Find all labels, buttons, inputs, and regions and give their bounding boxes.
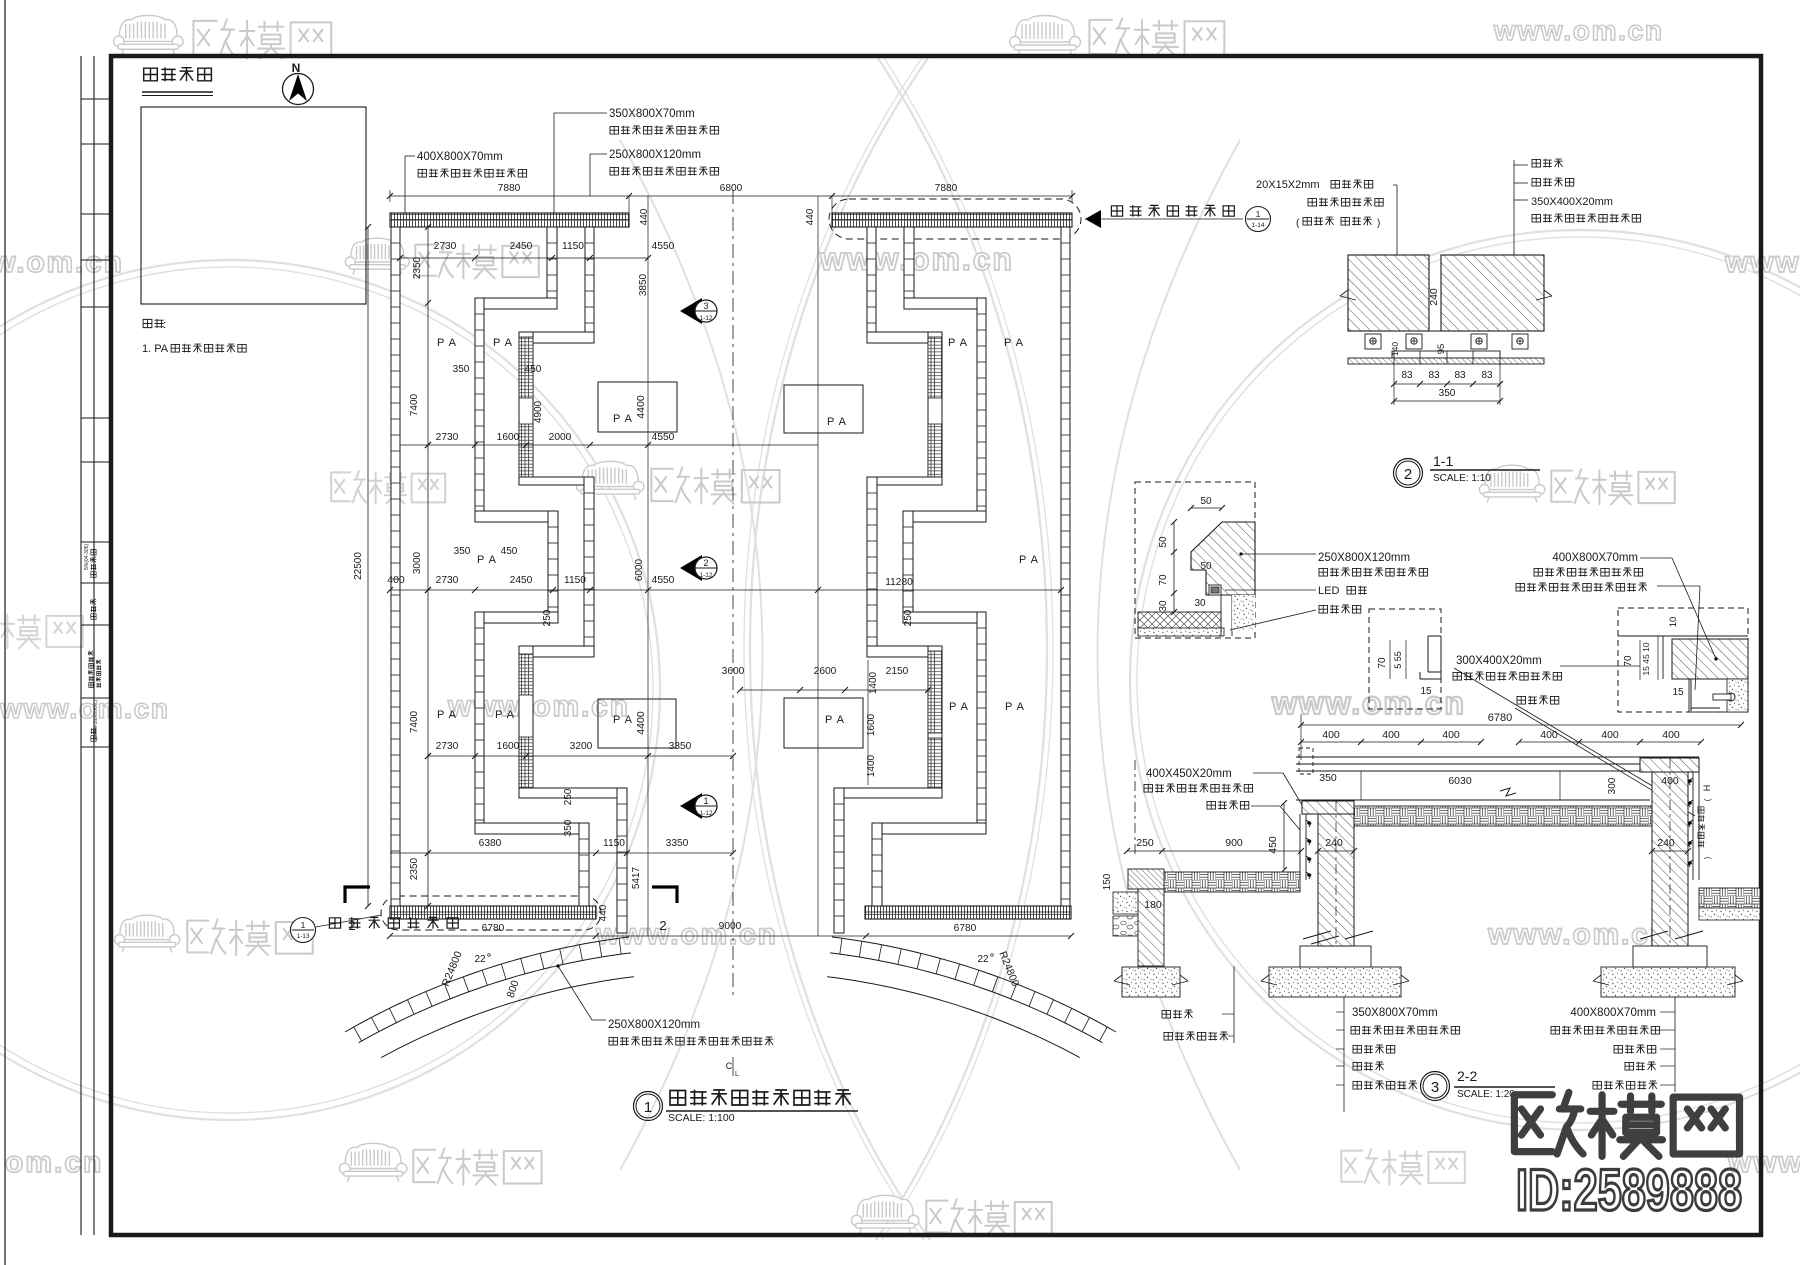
svg-text:P A: P A <box>437 709 457 721</box>
svg-text:4550: 4550 <box>652 575 675 586</box>
svg-text:2600: 2600 <box>814 666 837 677</box>
svg-text:6800: 6800 <box>720 183 743 194</box>
svg-text:www.om.cn: www.om.cn <box>1493 15 1664 46</box>
svg-text:350: 350 <box>454 546 471 557</box>
svg-text:6780: 6780 <box>482 923 505 934</box>
svg-text:250: 250 <box>1136 837 1154 849</box>
svg-text:300X400X20mm: 300X400X20mm <box>1456 655 1542 667</box>
svg-text:3: 3 <box>703 301 708 311</box>
svg-text:400: 400 <box>1601 729 1619 741</box>
svg-text:400X800X70mm: 400X800X70mm <box>1552 552 1638 564</box>
svg-text:P A: P A <box>948 337 968 349</box>
svg-text:1150: 1150 <box>562 241 584 252</box>
svg-text:440: 440 <box>639 208 650 225</box>
svg-text:9000: 9000 <box>719 921 742 932</box>
svg-text:1-12: 1-12 <box>699 572 712 579</box>
svg-text:240: 240 <box>1657 837 1675 849</box>
svg-text:22: 22 <box>474 954 486 965</box>
svg-text:400X800X70mm: 400X800X70mm <box>1570 1007 1656 1019</box>
svg-text:11280: 11280 <box>885 577 913 588</box>
svg-text:400X450X20mm: 400X450X20mm <box>1146 768 1232 780</box>
svg-text:P A: P A <box>1019 554 1039 566</box>
svg-text:140: 140 <box>1390 342 1400 356</box>
svg-text:LED: LED <box>1318 585 1339 597</box>
svg-text:150: 150 <box>1102 873 1113 890</box>
svg-text:30: 30 <box>1194 598 1206 609</box>
svg-text:350: 350 <box>1319 772 1337 784</box>
svg-text:www.om.cn: www.om.cn <box>1271 685 1466 721</box>
svg-text:2150: 2150 <box>886 666 909 677</box>
svg-text:H: H <box>1702 785 1712 792</box>
svg-text:7880: 7880 <box>498 183 521 194</box>
svg-text:400: 400 <box>1442 729 1460 741</box>
svg-text:2450: 2450 <box>510 575 533 586</box>
svg-text:2: 2 <box>1404 466 1412 483</box>
svg-text:30: 30 <box>1158 600 1169 612</box>
svg-text:om.cn: om.cn <box>5 1146 103 1179</box>
svg-text:6000: 6000 <box>634 558 645 581</box>
svg-text:www.om.cn: www.om.cn <box>819 241 1014 277</box>
svg-text:5417: 5417 <box>631 866 642 889</box>
svg-text:1. PA: 1. PA <box>142 343 169 355</box>
svg-text:3: 3 <box>1431 1079 1439 1096</box>
svg-text:SCALE: 1:100: SCALE: 1:100 <box>668 1112 735 1124</box>
svg-text:4900: 4900 <box>533 400 544 423</box>
svg-text:10: 10 <box>1668 617 1679 628</box>
svg-text:83: 83 <box>1454 370 1466 381</box>
svg-text:400: 400 <box>1661 775 1679 787</box>
svg-text:900: 900 <box>1225 837 1243 849</box>
svg-text:3600: 3600 <box>722 666 745 677</box>
svg-text:1-14: 1-14 <box>1251 222 1264 229</box>
svg-text:1150: 1150 <box>564 575 586 586</box>
svg-text:83: 83 <box>1428 370 1440 381</box>
svg-text:240: 240 <box>1428 288 1440 306</box>
svg-text:1: 1 <box>644 1099 652 1116</box>
svg-text:2730: 2730 <box>436 741 459 752</box>
svg-text:P A: P A <box>437 337 457 349</box>
svg-text:450: 450 <box>501 546 518 557</box>
svg-text:2350: 2350 <box>412 256 423 279</box>
svg-text:6780: 6780 <box>1488 712 1512 724</box>
svg-text:P A: P A <box>477 554 497 566</box>
svg-text:P A: P A <box>949 701 969 713</box>
svg-text:6030: 6030 <box>1448 775 1472 787</box>
svg-text:240: 240 <box>1325 837 1343 849</box>
svg-text:50: 50 <box>1158 536 1169 548</box>
svg-text:250: 250 <box>563 788 574 805</box>
svg-text:1600: 1600 <box>497 432 520 443</box>
svg-text:www.om.cn: www.om.cn <box>447 690 630 723</box>
svg-text:2: 2 <box>348 918 355 933</box>
svg-text:70: 70 <box>1623 655 1634 667</box>
svg-text:6380: 6380 <box>479 838 502 849</box>
svg-text:3850: 3850 <box>638 273 649 296</box>
svg-text:2350: 2350 <box>409 857 420 880</box>
svg-text:6780: 6780 <box>954 923 977 934</box>
svg-text:15: 15 <box>1672 687 1684 698</box>
svg-text:SCALE: 1:20: SCALE: 1:20 <box>1457 1089 1515 1100</box>
svg-text:P A: P A <box>825 714 845 726</box>
svg-text:P A: P A <box>613 714 633 726</box>
svg-text:1-12: 1-12 <box>699 810 712 817</box>
svg-text:(XXX9F1IERS.KRL): (XXX9F1IERS.KRL) <box>93 699 98 740</box>
svg-text:P A: P A <box>493 337 513 349</box>
svg-text:350X800X70mm: 350X800X70mm <box>1352 1007 1438 1019</box>
svg-text:3200: 3200 <box>570 741 593 752</box>
svg-text:22: 22 <box>977 954 989 965</box>
svg-text:P A: P A <box>613 413 633 425</box>
svg-text:5 55: 5 55 <box>1393 651 1403 669</box>
svg-text:250: 250 <box>542 609 553 626</box>
svg-text:440: 440 <box>805 208 816 225</box>
svg-text:22500: 22500 <box>353 552 364 580</box>
svg-text:4400: 4400 <box>635 711 647 735</box>
svg-text:1600: 1600 <box>497 741 520 752</box>
svg-text:350: 350 <box>563 819 574 836</box>
svg-text:7880: 7880 <box>935 183 958 194</box>
svg-text:ID:2589888: ID:2589888 <box>1516 1158 1742 1223</box>
svg-text:400: 400 <box>1662 729 1680 741</box>
svg-text:7400: 7400 <box>409 710 420 733</box>
svg-text:7400: 7400 <box>409 393 420 416</box>
svg-text:1: 1 <box>301 920 306 930</box>
svg-text:1: 1 <box>1256 209 1261 219</box>
svg-text:70: 70 <box>1377 657 1388 669</box>
svg-text:L: L <box>735 1071 739 1078</box>
svg-text:2730: 2730 <box>436 432 459 443</box>
svg-text:3350: 3350 <box>666 838 689 849</box>
svg-text:180: 180 <box>1144 899 1162 911</box>
svg-text:440: 440 <box>598 904 609 921</box>
svg-text:400: 400 <box>387 574 405 586</box>
svg-text:70: 70 <box>1158 574 1169 586</box>
svg-text:50: 50 <box>1200 561 1212 572</box>
svg-text:2730: 2730 <box>434 241 457 252</box>
svg-text:83: 83 <box>1401 370 1413 381</box>
svg-text:2: 2 <box>659 918 666 933</box>
svg-text:3000: 3000 <box>412 551 423 574</box>
svg-text:4400: 4400 <box>635 395 647 419</box>
svg-text:400: 400 <box>1540 729 1558 741</box>
svg-text:450: 450 <box>525 364 542 375</box>
svg-text:2: 2 <box>703 558 708 568</box>
svg-text:1: 1 <box>703 796 708 806</box>
svg-text:P A: P A <box>495 709 515 721</box>
svg-text:P A: P A <box>827 416 847 428</box>
svg-text:): ) <box>1377 218 1380 229</box>
svg-text:4550: 4550 <box>652 432 675 443</box>
svg-text:P A: P A <box>1004 337 1024 349</box>
svg-text:95: 95 <box>1436 344 1447 355</box>
svg-text:SCALE: 1:10: SCALE: 1:10 <box>1433 473 1491 484</box>
svg-text:2-2: 2-2 <box>1457 1068 1477 1084</box>
svg-text:50: 50 <box>1200 496 1212 507</box>
svg-text:300: 300 <box>1607 777 1618 794</box>
svg-text:83: 83 <box>1481 370 1493 381</box>
svg-text:5%(04-305): 5%(04-305) <box>84 544 90 570</box>
svg-text:20X15X2mm: 20X15X2mm <box>1256 179 1320 191</box>
svg-text:2730: 2730 <box>436 575 459 586</box>
svg-text:250: 250 <box>903 609 914 626</box>
svg-text:250X800X120mm: 250X800X120mm <box>608 1019 700 1031</box>
svg-text:15 45 10: 15 45 10 <box>1641 642 1651 675</box>
svg-text:P A: P A <box>1005 701 1025 713</box>
svg-text:400X800X70mm: 400X800X70mm <box>417 151 503 163</box>
svg-text:): ) <box>1703 856 1712 859</box>
svg-text:400: 400 <box>1382 729 1400 741</box>
svg-text:1-12: 1-12 <box>699 315 712 322</box>
svg-text:400: 400 <box>1322 729 1340 741</box>
svg-text:1-13: 1-13 <box>296 933 309 940</box>
svg-text:2000: 2000 <box>549 432 572 443</box>
svg-text:350: 350 <box>453 364 470 375</box>
svg-text:250X800X120mm: 250X800X120mm <box>609 149 701 161</box>
svg-text:1-1: 1-1 <box>1433 453 1453 469</box>
svg-text:250X800X120mm: 250X800X120mm <box>1318 552 1410 564</box>
svg-text:C: C <box>726 1061 733 1071</box>
svg-text:www.om.cn: www.om.cn <box>0 246 124 279</box>
svg-text:15: 15 <box>1420 686 1432 697</box>
svg-text:(: ( <box>1703 798 1712 801</box>
svg-text:350X800X70mm: 350X800X70mm <box>609 108 695 120</box>
svg-text:2450: 2450 <box>510 241 533 252</box>
svg-text:350: 350 <box>1439 388 1456 399</box>
svg-text::: : <box>163 319 166 331</box>
svg-text:3350: 3350 <box>669 741 692 752</box>
svg-text:1150: 1150 <box>603 838 625 849</box>
svg-text:4550: 4550 <box>652 241 675 252</box>
svg-text:1400: 1400 <box>868 671 879 694</box>
svg-text:350X400X20mm: 350X400X20mm <box>1531 196 1613 208</box>
